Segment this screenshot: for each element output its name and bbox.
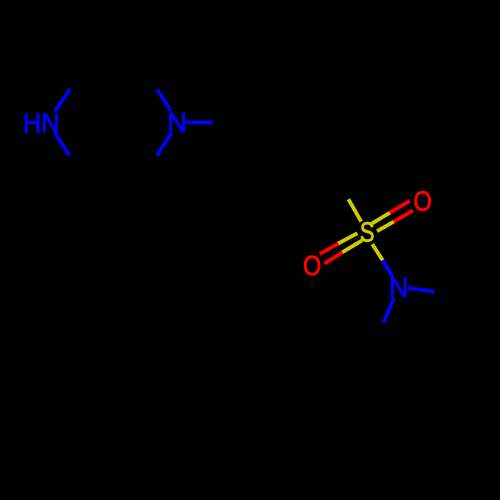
wire S=O upper double bond line1 yellow half: [370, 213, 390, 225]
svg-text:O: O: [413, 187, 431, 217]
wire N-CH3 (half-bond right from amide N): [408, 288, 435, 292]
svg-text:HN: HN: [23, 107, 59, 139]
wire S=O upper double bond line1 red half: [390, 201, 410, 213]
wire S=O lower double bond line1 yellow half: [338, 233, 357, 243]
svg-text:N: N: [389, 271, 408, 303]
wire S-N bond yellow half: [372, 244, 382, 260]
wire S=O lower double bond line2 red half: [325, 252, 343, 263]
svg-text:S: S: [360, 217, 375, 248]
svg-text:N: N: [167, 106, 186, 138]
wire N-CH3 (half-bond down-left from amide N): [383, 298, 394, 323]
wire N4-C3 (upper-right half-bond): [157, 90, 171, 111]
wire S=O lower double bond line1 red half: [320, 244, 338, 254]
wire N4-CH2 (half-bond to chain, horizontal): [186, 121, 213, 125]
wire S-N bond blue half: [383, 260, 393, 278]
piperazine ring: wire N1-C2 (upper-left half-bond): [55, 89, 70, 111]
wire S=O lower double bond line2 yellow half: [342, 240, 362, 252]
svg-text:O: O: [303, 251, 321, 281]
wire N1-C6 (lower-left half-bond): [55, 134, 69, 156]
wire S=O upper double bond line2 red half: [394, 210, 413, 221]
wire S-CH3 (half-bond up-left from S): [348, 199, 361, 221]
wire S=O upper double bond line2 yellow half: [377, 222, 394, 232]
wire N4-C5 (lower-right half-bond): [157, 133, 171, 155]
